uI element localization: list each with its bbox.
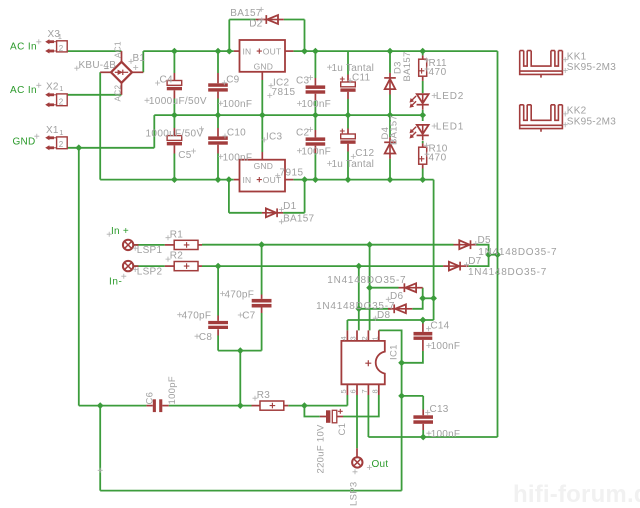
svg-text:470: 470 (429, 67, 447, 78)
svg-text:1u Tantal: 1u Tantal (332, 159, 375, 170)
svg-text:BA157: BA157 (283, 213, 314, 224)
svg-text:hifi-forum.de: hifi-forum.de (513, 481, 640, 508)
svg-text:IC3: IC3 (266, 132, 283, 143)
svg-text:1: 1 (59, 84, 63, 93)
svg-text:X1: X1 (46, 125, 59, 136)
svg-text:GND: GND (13, 137, 36, 148)
svg-text:220uF 10V: 220uF 10V (316, 424, 327, 474)
svg-text:R2: R2 (170, 251, 183, 262)
svg-text:100nF: 100nF (301, 146, 331, 157)
svg-text:3: 3 (349, 336, 358, 340)
svg-text:C7: C7 (242, 311, 255, 322)
svg-text:OUT: OUT (263, 47, 282, 57)
svg-text:BA157: BA157 (402, 51, 413, 81)
svg-text:1N4148DO35-7: 1N4148DO35-7 (478, 247, 557, 258)
svg-text:1: 1 (58, 32, 62, 41)
svg-text:SK95-2M3: SK95-2M3 (567, 116, 616, 127)
svg-text:KK1: KK1 (567, 51, 587, 62)
svg-text:X2: X2 (46, 81, 59, 92)
svg-text:D5: D5 (478, 235, 491, 246)
svg-text:KBU-4B: KBU-4B (79, 60, 117, 71)
svg-text:GND: GND (254, 62, 274, 72)
svg-text:470pF: 470pF (225, 289, 255, 300)
svg-text:C11: C11 (352, 72, 371, 83)
svg-text:C13: C13 (430, 404, 449, 415)
svg-text:2: 2 (59, 97, 64, 106)
svg-text:C9: C9 (226, 74, 239, 85)
svg-text:100nF: 100nF (431, 341, 461, 352)
svg-text:C5: C5 (178, 150, 191, 161)
svg-text:100nF: 100nF (223, 99, 253, 110)
svg-text:100pF: 100pF (167, 376, 178, 404)
svg-text:C14: C14 (430, 320, 449, 331)
svg-text:C4: C4 (160, 75, 173, 86)
svg-text:AC In: AC In (10, 85, 37, 96)
svg-text:C12: C12 (355, 148, 374, 159)
svg-text:2: 2 (59, 44, 64, 53)
svg-text:100nF: 100nF (431, 429, 461, 440)
svg-text:LSP2: LSP2 (137, 267, 163, 278)
svg-text:100nF: 100nF (301, 99, 331, 110)
svg-text:1000uF/50V: 1000uF/50V (149, 96, 207, 107)
svg-text:LSP3: LSP3 (348, 482, 359, 506)
svg-text:SK95-2M3: SK95-2M3 (567, 62, 616, 73)
svg-text:Out: Out (372, 459, 389, 470)
svg-text:AC1: AC1 (113, 41, 122, 58)
svg-text:2: 2 (360, 336, 369, 340)
svg-text:C6: C6 (145, 392, 156, 405)
svg-text:D8: D8 (377, 310, 390, 321)
svg-text:D7: D7 (468, 256, 481, 267)
svg-text:C3: C3 (296, 76, 309, 87)
svg-text:1N4148DO35-7: 1N4148DO35-7 (468, 267, 547, 278)
svg-text:LED1: LED1 (436, 121, 464, 132)
svg-text:470pF: 470pF (182, 310, 212, 321)
svg-text:AC In: AC In (10, 41, 37, 52)
svg-text:GND: GND (254, 161, 274, 171)
svg-text:In-: In- (109, 276, 122, 287)
svg-text:4: 4 (339, 336, 348, 340)
svg-text:KK2: KK2 (567, 106, 587, 117)
svg-text:IN: IN (243, 47, 252, 57)
svg-text:8: 8 (370, 389, 379, 393)
svg-text:B1: B1 (133, 53, 146, 64)
svg-text:In +: In + (111, 226, 129, 237)
svg-text:LSP1: LSP1 (137, 245, 163, 256)
svg-text:LED2: LED2 (436, 91, 464, 102)
svg-text:2: 2 (59, 140, 64, 149)
svg-text:R3: R3 (257, 390, 270, 401)
svg-text:IN: IN (243, 175, 252, 185)
svg-text:BA157: BA157 (389, 115, 400, 145)
svg-text:IC1: IC1 (389, 344, 400, 360)
svg-text:C1: C1 (337, 423, 348, 436)
svg-text:1: 1 (59, 128, 63, 137)
svg-text:AC2: AC2 (113, 85, 122, 102)
svg-text:1N4148DO35-7: 1N4148DO35-7 (327, 275, 406, 286)
svg-text:100nF: 100nF (223, 152, 253, 163)
svg-text:R1: R1 (170, 229, 183, 240)
svg-text:C8: C8 (199, 332, 212, 343)
svg-text:7815: 7815 (272, 87, 296, 98)
svg-text:D1: D1 (283, 201, 296, 212)
svg-text:1000uF/50V: 1000uF/50V (146, 129, 204, 140)
svg-text:C2: C2 (296, 127, 309, 138)
svg-text:1: 1 (370, 336, 379, 340)
svg-text:470: 470 (429, 152, 447, 163)
svg-text:7: 7 (360, 389, 369, 393)
svg-text:6: 6 (349, 389, 358, 393)
svg-text:7915: 7915 (280, 167, 304, 178)
svg-text:5: 5 (339, 389, 348, 393)
svg-text:C10: C10 (227, 128, 246, 139)
